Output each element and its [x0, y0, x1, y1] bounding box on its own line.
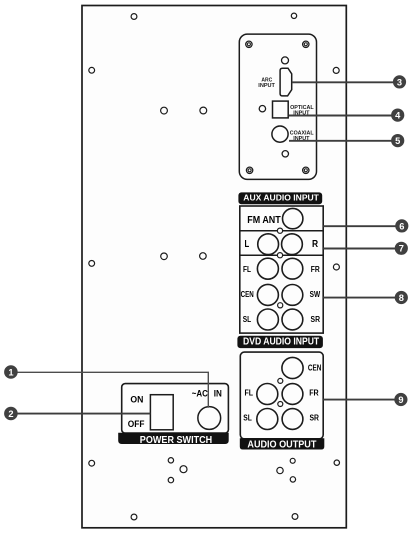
svg-text:5: 5 [395, 136, 400, 146]
svg-text:IN: IN [214, 389, 222, 399]
svg-text:8: 8 [399, 293, 404, 303]
svg-text:DVD AUDIO INPUT: DVD AUDIO INPUT [243, 336, 319, 347]
svg-text:FL: FL [243, 265, 251, 274]
callout 3 [393, 75, 406, 88]
SR label [311, 315, 321, 324]
AUDIO OUTPUT box [240, 352, 323, 439]
FR output jack [282, 384, 303, 405]
callout line 5 [289, 140, 392, 142]
ON label [130, 395, 143, 405]
callout line 3 [292, 81, 395, 83]
FR label [311, 265, 320, 274]
FM ANT jack [283, 208, 303, 228]
COAXIAL INPUT jack [272, 126, 288, 142]
L jack [258, 234, 279, 255]
SL output label [243, 413, 252, 422]
callout line 6 [323, 225, 396, 227]
SL jack [257, 309, 278, 330]
svg-text:4: 4 [395, 111, 401, 121]
svg-text:SL: SL [243, 315, 251, 324]
callout line 9 [323, 399, 395, 401]
svg-text:CEN: CEN [308, 364, 322, 373]
plate mounting holes [89, 13, 340, 520]
ARC INPUT label [258, 78, 275, 89]
callout 5 [391, 134, 404, 147]
FM ANT label [247, 215, 281, 226]
CEN jack [257, 284, 278, 305]
screw hole between rows [278, 303, 283, 308]
callout line 7 [323, 248, 395, 250]
svg-text:FR: FR [311, 265, 320, 274]
FL output label [245, 389, 254, 398]
sub-panel screw bottom-right [303, 167, 309, 173]
COAXIAL INPUT label [290, 131, 314, 142]
screw hole upper [278, 378, 283, 383]
FL label [243, 265, 251, 274]
separator line 1 [241, 230, 323, 232]
callout 7 [395, 242, 408, 255]
FL output jack [257, 384, 278, 405]
hole left of optical [259, 106, 265, 112]
FR output label [309, 388, 319, 397]
screw hole on separator 1 [277, 228, 282, 233]
rocker switch [150, 395, 173, 430]
sub-panel screw bottom-left [246, 167, 252, 173]
CEN label [241, 290, 254, 299]
SR output label [309, 413, 319, 422]
svg-text:CEN: CEN [241, 290, 254, 299]
svg-text:2: 2 [8, 409, 13, 419]
AC inlet [198, 407, 221, 430]
digital input sub-panel [239, 34, 316, 179]
SR jack [282, 309, 303, 330]
AUDIO OUTPUT footer bar [240, 438, 324, 450]
ARC INPUT HDMI connector [280, 68, 292, 96]
POWER SWITCH box [122, 384, 229, 434]
DVD AUDIO INPUT footer bar [237, 336, 323, 348]
svg-text:AUX AUDIO INPUT: AUX AUDIO INPUT [243, 193, 319, 203]
sub-panel hole bottom [282, 151, 288, 157]
R label [312, 239, 319, 250]
svg-text:OFF: OFF [128, 419, 145, 429]
svg-text:SL: SL [243, 413, 252, 422]
sub-panel screw top-right [303, 41, 309, 47]
svg-text:R: R [312, 239, 319, 250]
L label [245, 239, 250, 250]
callout line 4 [289, 115, 392, 117]
svg-text:FL: FL [245, 389, 254, 398]
AUX AUDIO INPUT header bar [238, 192, 322, 204]
CEN output label [308, 364, 322, 373]
SL label [243, 315, 251, 324]
OPTICAL INPUT label [290, 105, 314, 117]
CEN output jack [282, 357, 303, 378]
svg-text:~AC: ~AC [192, 389, 209, 399]
SW jack [282, 285, 303, 306]
svg-text:SW: SW [310, 290, 321, 299]
callout 1 [4, 365, 18, 379]
svg-text:1: 1 [8, 367, 13, 377]
svg-text:7: 7 [399, 244, 404, 254]
SL output jack [257, 409, 278, 430]
svg-text:SR: SR [309, 413, 319, 422]
OPTICAL INPUT square connector [273, 101, 289, 118]
callout line 2 [17, 413, 150, 415]
FR jack [282, 258, 303, 279]
OFF label [128, 419, 145, 429]
callout line 8 [323, 297, 395, 299]
aux/dvd input box [240, 206, 323, 333]
screw hole lower [278, 402, 283, 407]
svg-text:L: L [245, 239, 250, 250]
callout 6 [395, 219, 408, 232]
POWER SWITCH footer bar [118, 433, 229, 446]
callout 4 [391, 109, 404, 122]
callout 2 [4, 407, 18, 421]
svg-text:INPUT: INPUT [258, 83, 275, 89]
svg-text:FM ANT: FM ANT [247, 215, 281, 226]
svg-text:9: 9 [398, 395, 403, 405]
sub-panel screw top-left [246, 41, 252, 47]
callout 9 [394, 393, 407, 406]
svg-text:ON: ON [130, 395, 143, 405]
screw hole on separator 2 [277, 253, 282, 258]
svg-text:AUDIO OUTPUT: AUDIO OUTPUT [247, 438, 316, 450]
svg-text:SR: SR [311, 315, 321, 324]
svg-text:FR: FR [309, 388, 319, 397]
SR output jack [282, 409, 303, 430]
FL jack [257, 258, 278, 279]
R jack [282, 234, 303, 255]
callout 8 [395, 291, 408, 304]
sub-panel hole top [282, 57, 289, 64]
svg-text:3: 3 [397, 77, 402, 87]
svg-text:POWER SWITCH: POWER SWITCH [140, 434, 212, 446]
separator line 2 [241, 254, 323, 256]
svg-text:6: 6 [399, 221, 404, 231]
~AC IN label [192, 389, 222, 399]
callout line 1 [17, 372, 208, 408]
SW label [310, 290, 321, 299]
rear panel plate [82, 6, 346, 528]
